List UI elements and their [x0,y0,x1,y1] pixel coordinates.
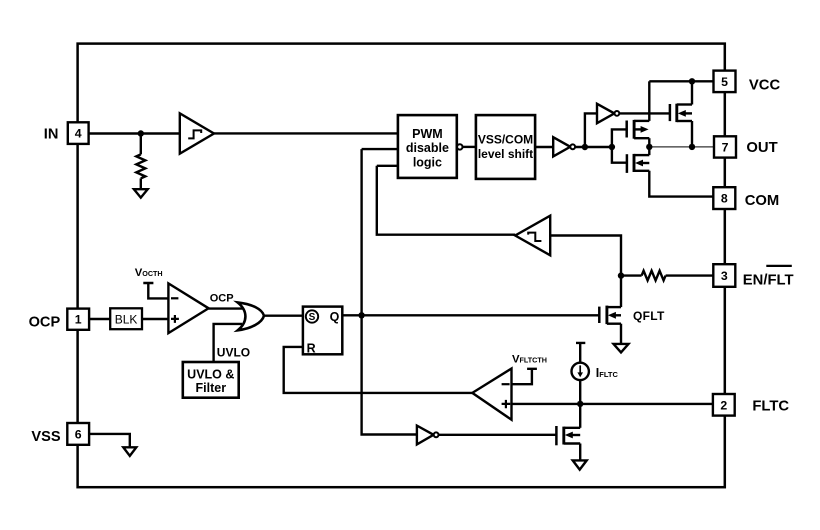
svg-text:UVLO &: UVLO & [187,367,234,381]
wire node B to Q3 gate [612,147,627,163]
inverter U3 [597,104,619,123]
svg-text:FLTC: FLTC [752,398,789,414]
svg-text:IFLTC: IFLTC [596,366,619,380]
OR gate G1 [238,302,265,330]
svg-text:COM: COM [745,193,780,209]
schmitt buffer U1 (IN) [180,113,214,153]
svg-text:VOCTH: VOCTH [135,267,163,279]
wire OCP pin to BLK [88,318,110,320]
transistor QFLT [599,306,621,325]
wire Q4 to ground [579,444,581,461]
svg-text:7: 7 [722,141,729,155]
transistor Q3 (lower driver) [627,154,649,173]
svg-text:IN: IN [44,126,59,142]
wire Q4 drain from FLTC node [579,404,581,428]
wire schmitt out to PWM logic [214,132,398,134]
wire current source to FLTC node [579,380,581,404]
transistor Q4 (FLTC discharge) [556,426,580,445]
wire PWM bottom input from feedback buffer [377,166,515,235]
Vocth reference stub [143,283,168,298]
node OUT top junction [689,144,695,150]
pin 6 box [67,423,89,445]
wire FLTC net to pin 2 [512,403,713,405]
wire Q3 to COM rail [649,171,713,197]
svg-text:Q: Q [330,310,340,324]
wire Q1 to OUT node [691,121,693,147]
pin 8 box [713,187,735,209]
Vfltcth reference stub [512,369,537,384]
svg-text:8: 8 [721,192,728,206]
wire Q3 top to OUT node [648,147,650,155]
block BLK [110,308,142,329]
wire VSS pin to ground [90,434,130,447]
ground (VSS) [123,447,136,456]
block PWM disable logic [398,115,457,178]
svg-text:6: 6 [75,427,82,441]
resistor R-IN pulldown [136,154,145,178]
wire Q2 to OUT node [648,138,650,147]
inverter U7 (fault path) [417,426,439,445]
pin 3 box [713,264,735,287]
svg-text:VFLTCTH: VFLTCTH [512,353,547,365]
overline FLT [766,265,792,267]
wire OUT thin [649,146,714,148]
text UVLO & Filter [187,367,234,395]
wire OR out to latch S [264,315,303,317]
node A driver [582,144,588,150]
transistor Q2 (upper driver) [627,120,650,139]
node IN junction [138,130,144,136]
block VSS/COM level shift [476,115,535,179]
wire PWM middle input from Q [362,149,417,434]
svg-text:OCP: OCP [210,293,234,305]
comparator U8 (FLTC, left pointing) [472,369,511,420]
svg-text:EN/FLT: EN/FLT [743,272,794,288]
wire node B to Q2 gate [612,129,627,147]
wire node A to inverter U3 [585,113,597,147]
wire QFLT to ground [620,324,622,344]
ground (IN pulldown) [134,189,148,197]
wire to ground [140,178,142,189]
svg-text:QFLT: QFLT [633,309,665,323]
wire U4 input from EN node [550,236,621,276]
latch U6 SR [303,307,342,355]
svg-text:R: R [307,341,316,355]
svg-text:5: 5 [721,75,728,89]
wire UVLO to OR gate [214,324,242,362]
pin 2 box [713,394,735,416]
svg-text:VSS/COM: VSS/COM [478,133,533,147]
svg-text:4: 4 [75,127,82,141]
node B driver [609,144,615,150]
schmitt buffer U4 (EN feedback, left pointing) [515,216,550,256]
current source I-FLTC [572,343,589,380]
ground (Q4) [573,460,587,469]
svg-text:PWM: PWM [412,127,443,141]
wire U3 out to Q1 gate [619,112,670,114]
wire comparator out to OR gate [209,307,243,309]
buffer U2 with inverted output [553,137,575,156]
ground (QFLT) [614,344,629,353]
svg-text:Filter: Filter [196,381,227,395]
wire Q output to QFLT gate [342,314,599,316]
svg-text:VCC: VCC [749,77,781,93]
svg-text:2: 2 [720,398,727,412]
wire level shift out [535,146,553,148]
text VSS/COM level shift [478,133,533,162]
svg-text:BLK: BLK [115,313,138,327]
node Q junction [358,312,364,318]
wire VCC rail [649,81,713,121]
svg-text:S: S [309,312,316,323]
wire EN node to QFLT [620,276,622,308]
svg-text:3: 3 [721,269,728,283]
svg-text:logic: logic [413,155,442,169]
pin 1 box [67,309,89,330]
block UVLO & Filter [183,362,239,398]
wire IN net [89,134,180,155]
svg-text:1: 1 [75,313,82,327]
svg-text:UVLO: UVLO [217,345,250,359]
wire EN node to resistor [621,274,642,276]
node FLTC junction [577,401,583,407]
svg-text:OUT: OUT [746,140,777,156]
transistor Q1 (VCC side) [670,104,692,122]
wire resistor to pin 3 [666,274,714,276]
wire BLK to comparator plus [142,318,168,320]
wire U7 out to Q4 gate [439,434,557,436]
svg-text:disable: disable [406,141,449,155]
comparator U5 (OCP) [168,283,208,333]
pin 7 box [714,136,736,157]
svg-text:VSS: VSS [31,429,60,445]
wire PWM out to level shift [463,146,476,148]
wire driver node [575,146,612,148]
svg-text:OCP: OCP [29,315,61,331]
pin 5 box [714,71,736,93]
wire R input from FLTC comparator [284,347,473,393]
pin 4 box [68,122,89,144]
node OUT mid junction [646,144,652,150]
text PWM disable logic [406,127,449,170]
node VCC rail junction [689,78,695,84]
IC boundary box [78,44,725,488]
resistor R-EN [642,271,666,281]
bubble PWM output [457,144,462,149]
svg-text:level shift: level shift [478,147,533,161]
node EN junction [618,272,624,278]
